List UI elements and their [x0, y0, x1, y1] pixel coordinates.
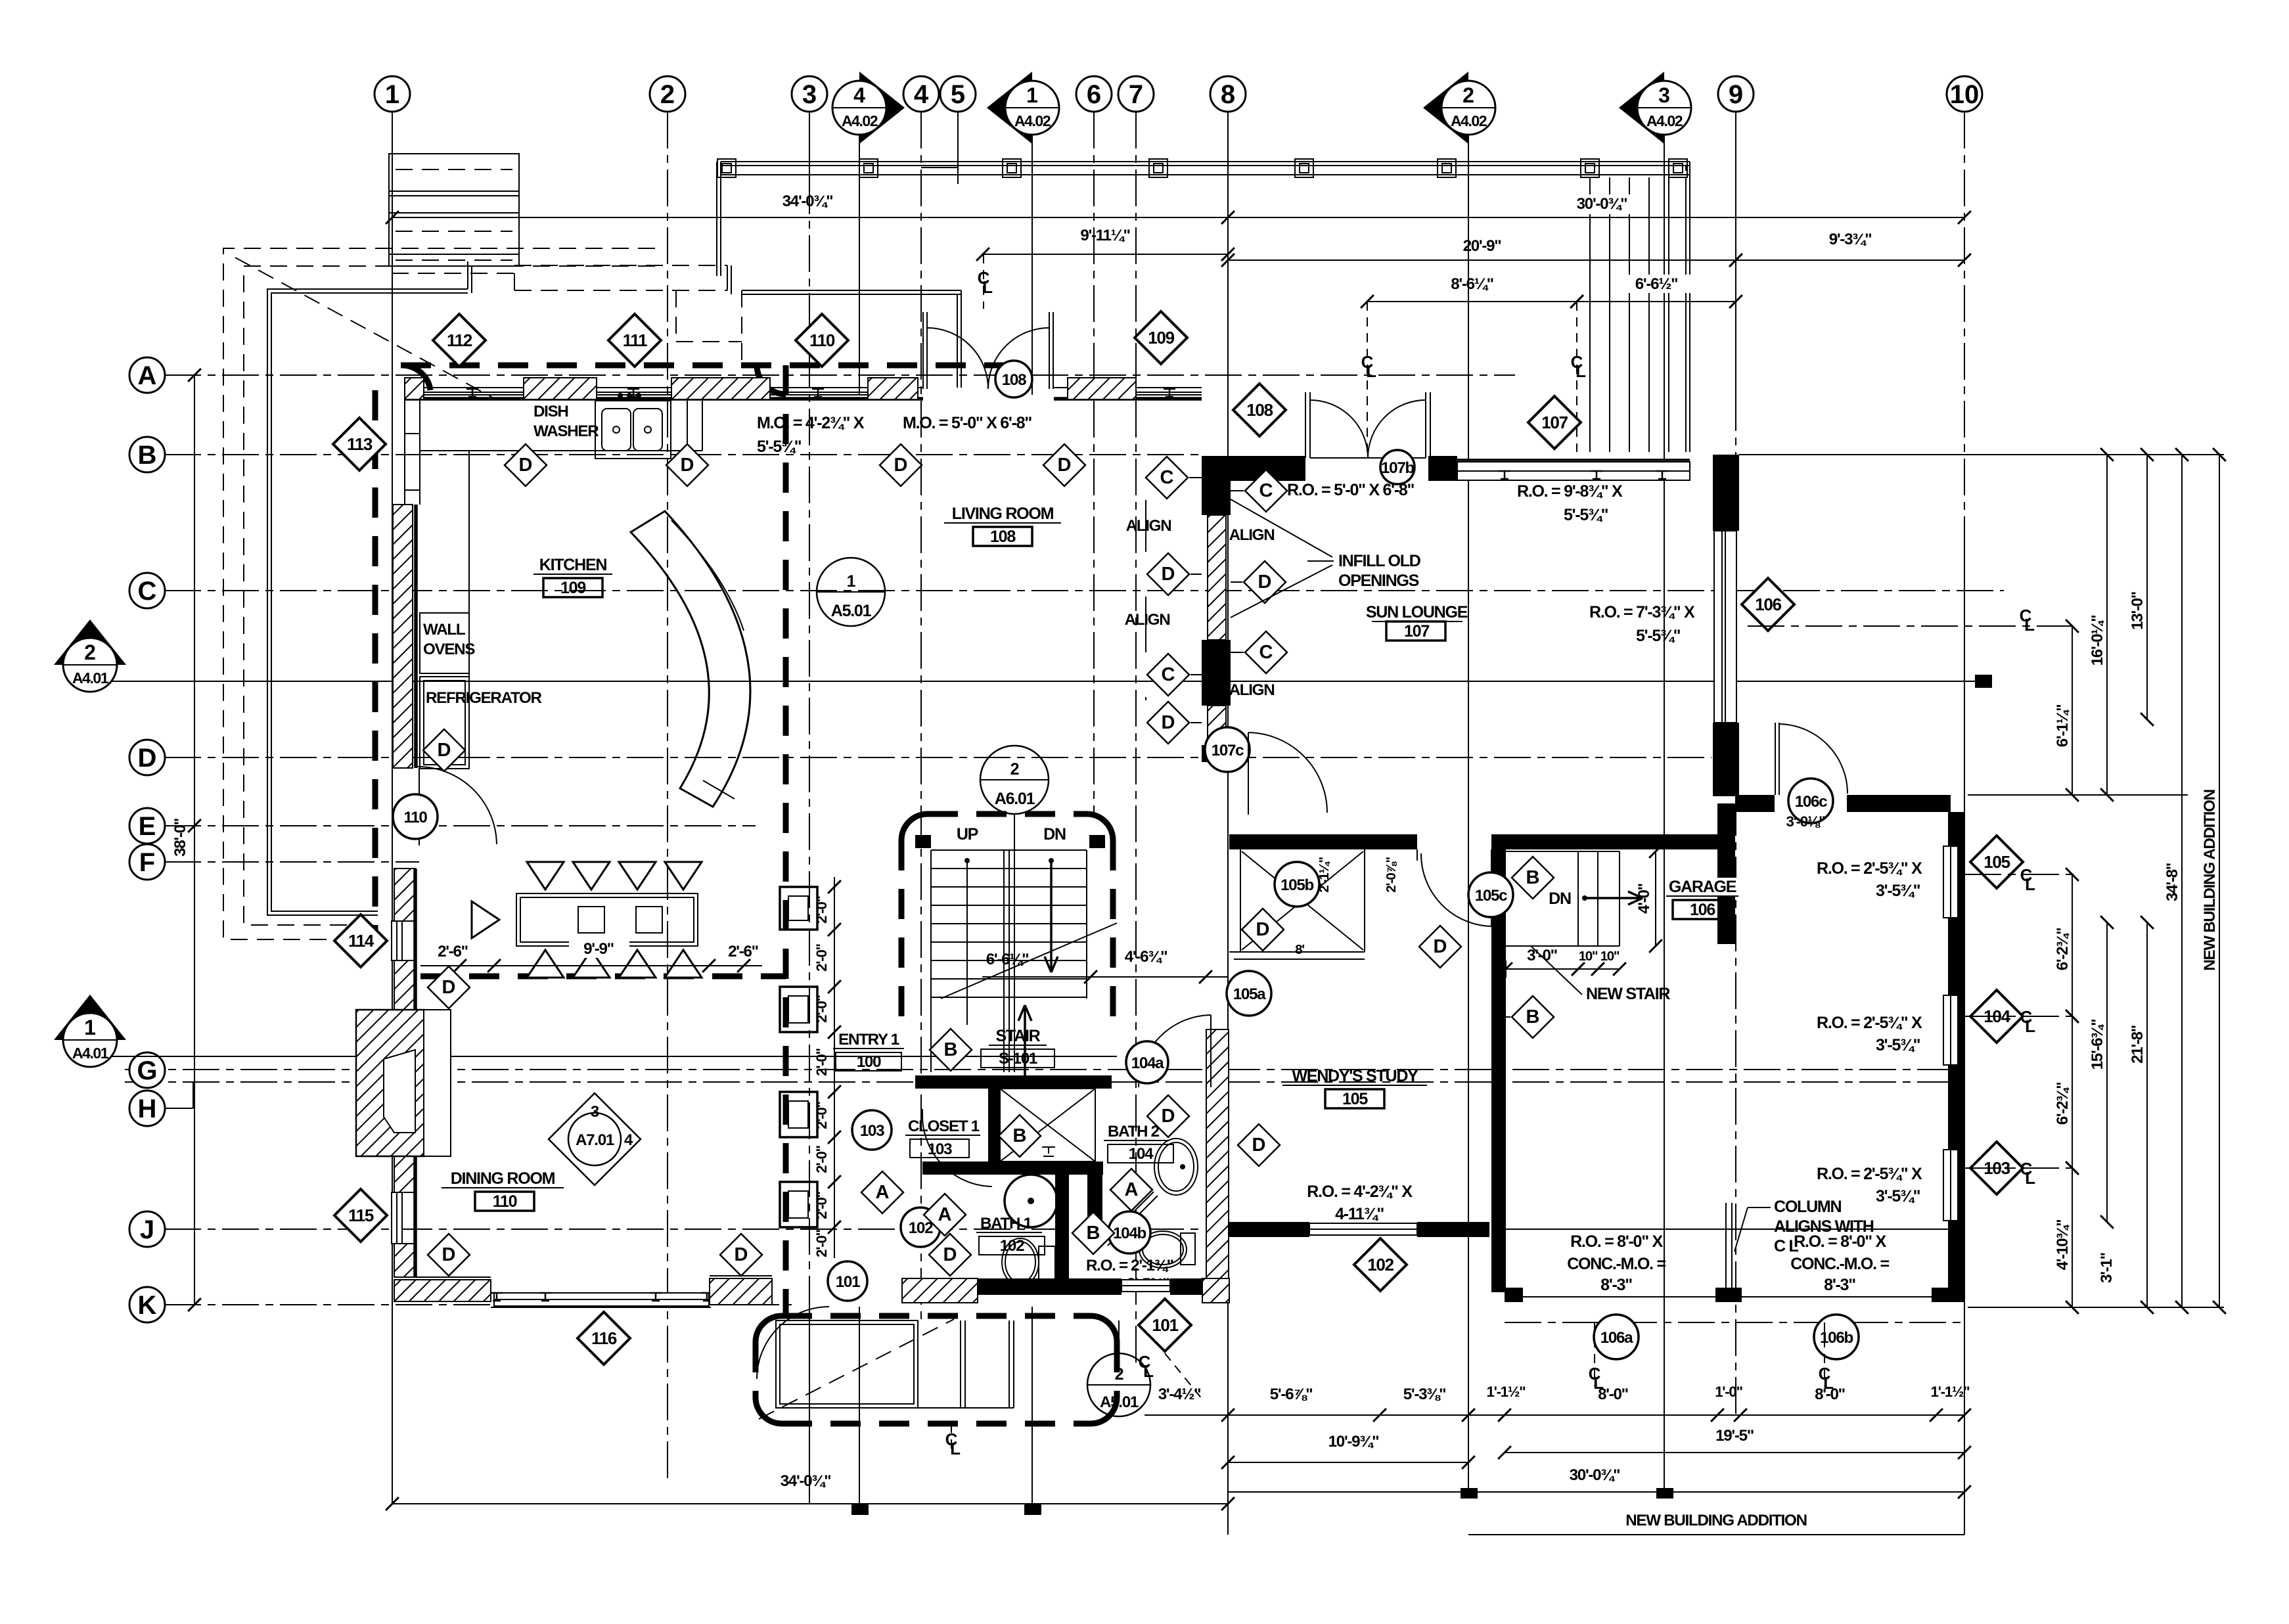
- svg-text:6'-2¾": 6'-2¾": [2054, 928, 2072, 971]
- bath divider: [1087, 1162, 1102, 1240]
- svg-text:A6.01: A6.01: [995, 790, 1035, 808]
- svg-text:2: 2: [1462, 83, 1474, 107]
- refrigerator: [420, 677, 469, 769]
- closet divider: [988, 1089, 1000, 1162]
- top dimension 34ft: [392, 217, 1228, 218]
- svg-text:4-11¾": 4-11¾": [1335, 1205, 1384, 1223]
- svg-text:WENDY'S STUDY: WENDY'S STUDY: [1292, 1067, 1418, 1085]
- svg-text:106c: 106c: [1795, 793, 1827, 811]
- svg-text:R.O. = 2'-5¾" X: R.O. = 2'-5¾" X: [1817, 1165, 1922, 1183]
- svg-text:A7.01: A7.01: [576, 1131, 614, 1149]
- dim 9-3: [1736, 259, 1964, 261]
- svg-text:S-101: S-101: [999, 1050, 1037, 1068]
- svg-text:D: D: [1162, 712, 1175, 733]
- closet dim chain: [834, 877, 835, 1258]
- svg-text:BATH 1: BATH 1: [980, 1215, 1032, 1232]
- core north wall: [915, 1075, 1112, 1089]
- entry closet cabinets: [780, 887, 817, 930]
- garage north wall west part: [1491, 834, 1734, 849]
- door 102 arc: [922, 1117, 992, 1186]
- svg-text:114: 114: [348, 931, 374, 951]
- svg-text:ALIGN: ALIGN: [1126, 517, 1171, 535]
- shower: [1000, 1089, 1095, 1162]
- new top porch beam: [721, 161, 1690, 162]
- section line 2/A4.01: [72, 681, 1983, 682]
- svg-text:103: 103: [860, 1122, 884, 1140]
- svg-text:A4.02: A4.02: [1646, 112, 1683, 129]
- svg-text:5'-5¾": 5'-5¾": [1636, 627, 1681, 645]
- porch diagonal: [759, 1319, 954, 1419]
- detail marker 3/A7.01/4: [549, 1093, 641, 1185]
- detail circle 1/A5.01: [817, 558, 885, 626]
- svg-text:9'-9": 9'-9": [583, 940, 614, 958]
- garage label: [1665, 878, 1740, 896]
- wall ovens: [420, 613, 469, 673]
- svg-text:105c: 105c: [1475, 887, 1507, 905]
- fireplace hearth: [424, 1010, 451, 1156]
- svg-text:A4.01: A4.01: [72, 1045, 109, 1062]
- svg-text:OPENINGS: OPENINGS: [1338, 572, 1419, 590]
- hatched piers north wall: [405, 378, 424, 399]
- svg-text:102: 102: [909, 1219, 933, 1237]
- svg-text:3'-0⅛": 3'-0⅛": [1786, 813, 1826, 830]
- french door 108: [922, 312, 924, 389]
- svg-text:1: 1: [847, 572, 856, 591]
- svg-text:102: 102: [1367, 1255, 1394, 1274]
- svg-text:30'-0¾": 30'-0¾": [1570, 1466, 1620, 1484]
- curved counter: [631, 511, 750, 807]
- svg-text:109: 109: [1148, 328, 1174, 348]
- svg-text:1: 1: [385, 80, 399, 109]
- svg-text:ALIGNS WITH: ALIGNS WITH: [1774, 1217, 1874, 1236]
- svg-text:L: L: [2025, 1168, 2035, 1188]
- stair treads: [930, 850, 932, 1072]
- svg-text:D: D: [1258, 572, 1272, 593]
- svg-text:108: 108: [990, 528, 1016, 546]
- svg-text:104b: 104b: [1113, 1225, 1146, 1242]
- island chairs: [527, 862, 564, 890]
- svg-text:6'-2¾": 6'-2¾": [2054, 1083, 2072, 1125]
- svg-text:A4.01: A4.01: [72, 669, 109, 687]
- svg-text:13'-0": 13'-0": [2129, 592, 2146, 630]
- svg-text:3'-1": 3'-1": [2098, 1253, 2116, 1283]
- svg-text:R.O. = 2'-5¾" X: R.O. = 2'-5¾" X: [1817, 859, 1922, 878]
- svg-text:A4.02: A4.02: [1451, 112, 1487, 129]
- svg-text:NEW BUILDING ADDITION: NEW BUILDING ADDITION: [2201, 790, 2219, 970]
- svg-text:112: 112: [447, 330, 472, 350]
- svg-text:105: 105: [1342, 1090, 1368, 1108]
- bath2 tub: [1154, 1139, 1198, 1195]
- door 107c: [1205, 727, 1250, 772]
- column grid bubbles: [374, 76, 410, 112]
- svg-text:107b: 107b: [1381, 459, 1414, 477]
- CL marks bottom: [1589, 1364, 1604, 1393]
- dim 19-5: [1505, 1452, 1964, 1453]
- bath2 toilet: [1139, 1231, 1187, 1268]
- svg-text:DINING ROOM: DINING ROOM: [451, 1169, 555, 1188]
- svg-text:5'-5¾": 5'-5¾": [757, 438, 802, 456]
- svg-text:107c: 107c: [1212, 742, 1244, 759]
- garage east wall: [1948, 812, 1964, 1301]
- door 105a: [1227, 971, 1271, 1016]
- svg-text:D: D: [442, 977, 456, 998]
- door 104b diagonal: [1104, 1192, 1154, 1242]
- svg-text:2'-6": 2'-6": [728, 943, 758, 960]
- svg-text:G: G: [137, 1056, 157, 1085]
- svg-text:CLOSET 1: CLOSET 1: [908, 1117, 980, 1135]
- svg-text:NEW BUILDING ADDITION: NEW BUILDING ADDITION: [1625, 1512, 1806, 1529]
- svg-text:10": 10": [1579, 949, 1598, 964]
- svg-text:C L: C L: [1774, 1237, 1798, 1255]
- svg-text:KITCHEN: KITCHEN: [539, 556, 607, 574]
- svg-text:STAIR: STAIR: [996, 1027, 1041, 1045]
- svg-text:D: D: [442, 1244, 456, 1265]
- section marker 3/A4.02: [1619, 72, 1664, 144]
- svg-text:2: 2: [1115, 1365, 1123, 1384]
- svg-text:R.O. = 2'-5¾" X: R.O. = 2'-5¾" X: [1817, 1014, 1922, 1032]
- tags bath core: [861, 1171, 903, 1213]
- svg-text:D: D: [943, 1244, 957, 1265]
- svg-text:107: 107: [1404, 622, 1429, 641]
- svg-text:3: 3: [1658, 83, 1670, 107]
- svg-text:L: L: [2024, 615, 2035, 635]
- svg-text:2'-0": 2'-0": [813, 1145, 830, 1173]
- dim 10-9: [1228, 1462, 1468, 1463]
- kitchen sink: [595, 401, 671, 459]
- svg-text:19'-5": 19'-5": [1715, 1427, 1754, 1445]
- bottom dims row: [1228, 1414, 1964, 1416]
- svg-text:K: K: [138, 1291, 157, 1320]
- svg-text:8'-3": 8'-3": [1824, 1276, 1855, 1294]
- svg-text:105b: 105b: [1280, 876, 1313, 894]
- svg-text:C: C: [1162, 664, 1175, 685]
- svg-text:GARAGE: GARAGE: [1669, 878, 1736, 896]
- svg-text:L: L: [2025, 1016, 2035, 1036]
- svg-text:NEW STAIR: NEW STAIR: [1586, 985, 1670, 1003]
- svg-text:34'-0¾": 34'-0¾": [782, 192, 833, 210]
- svg-text:116: 116: [591, 1328, 617, 1348]
- svg-text:106: 106: [1690, 901, 1715, 919]
- svg-text:WASHER: WASHER: [533, 422, 599, 440]
- svg-text:C: C: [1160, 467, 1174, 488]
- svg-text:5'-6⅞": 5'-6⅞": [1270, 1386, 1313, 1403]
- svg-text:110: 110: [809, 330, 835, 350]
- svg-text:CONC.-M.O. =: CONC.-M.O. =: [1790, 1255, 1889, 1273]
- svg-text:8'-3": 8'-3": [1600, 1276, 1632, 1294]
- svg-text:3'-5¾": 3'-5¾": [1876, 1187, 1920, 1206]
- study west wall hatched: [1206, 1029, 1229, 1299]
- svg-text:3'-4½": 3'-4½": [1158, 1386, 1201, 1403]
- svg-text:D: D: [1252, 1135, 1266, 1156]
- svg-text:110: 110: [403, 809, 427, 826]
- svg-text:3'-5¾": 3'-5¾": [1876, 1036, 1920, 1054]
- svg-text:2'-0": 2'-0": [813, 1048, 830, 1075]
- svg-text:B: B: [944, 1039, 958, 1060]
- top dimension 30ft: [1228, 217, 1964, 218]
- svg-text:A: A: [876, 1182, 890, 1203]
- svg-text:4: 4: [624, 1131, 633, 1149]
- dim 8-6 6-6: [1367, 301, 1577, 302]
- svg-text:A: A: [938, 1204, 952, 1225]
- svg-text:104: 104: [1129, 1145, 1154, 1163]
- study south wall: [1229, 1222, 1309, 1237]
- svg-text:6'-6½": 6'-6½": [1635, 275, 1678, 293]
- french door 107b: [1305, 392, 1306, 458]
- door 105c: [1416, 849, 1418, 861]
- garage south wall: [1505, 1288, 1523, 1302]
- entry steps top: [389, 154, 519, 266]
- svg-text:7: 7: [1129, 80, 1143, 109]
- svg-text:2: 2: [84, 641, 96, 664]
- svg-text:OVENS: OVENS: [423, 641, 475, 658]
- svg-text:101: 101: [836, 1273, 860, 1291]
- svg-text:5: 5: [951, 80, 965, 109]
- svg-text:INFILL OLD: INFILL OLD: [1338, 552, 1421, 570]
- bottom dim line 30ft: [1228, 1491, 1964, 1493]
- svg-text:A: A: [1125, 1179, 1139, 1200]
- svg-text:M.O. = 4'-2¾" X: M.O. = 4'-2¾" X: [757, 414, 865, 432]
- door 110: [419, 768, 420, 846]
- section lines A4.02: [859, 135, 860, 395]
- detail circle 2/A5.01: [1087, 1353, 1150, 1416]
- svg-text:F: F: [139, 848, 155, 877]
- svg-text:4'-6¾": 4'-6¾": [1125, 948, 1167, 966]
- svg-text:108: 108: [1246, 400, 1273, 420]
- svg-text:101: 101: [1152, 1315, 1178, 1335]
- svg-text:105a: 105a: [1233, 985, 1266, 1003]
- svg-text:34'-8": 34'-8": [2164, 863, 2181, 901]
- wall segment east: [1735, 795, 1775, 812]
- svg-text:30'-0¾": 30'-0¾": [1577, 195, 1627, 213]
- svg-text:J: J: [140, 1215, 154, 1244]
- kitchen west wall hatched: [393, 505, 413, 768]
- svg-text:UP: UP: [957, 825, 978, 844]
- dining bay windows: [491, 1292, 711, 1294]
- svg-text:D: D: [1058, 455, 1072, 476]
- door 106c: [1775, 723, 1776, 795]
- svg-text:38'-0": 38'-0": [171, 819, 189, 857]
- svg-text:B: B: [138, 441, 157, 470]
- svg-text:3'-5¾": 3'-5¾": [1876, 882, 1920, 900]
- roof outline over kitchen: [392, 273, 514, 274]
- svg-text:CONC.-M.O. =: CONC.-M.O. =: [1567, 1255, 1666, 1273]
- study north wall: [1229, 834, 1417, 849]
- bottom dim line 34ft: [392, 1503, 1228, 1504]
- svg-text:8': 8': [1295, 942, 1304, 957]
- column grid lines: [392, 112, 393, 1504]
- svg-text:D: D: [1434, 936, 1447, 957]
- section marker 4/A4.02: [859, 72, 905, 144]
- svg-text:R.O. = 8'-0" X: R.O. = 8'-0" X: [1570, 1232, 1663, 1251]
- svg-text:L: L: [1143, 1361, 1154, 1381]
- svg-text:C: C: [1259, 642, 1273, 663]
- svg-text:4'-10¾": 4'-10¾": [2054, 1220, 2072, 1271]
- svg-text:9'-3¾": 9'-3¾": [1829, 231, 1872, 248]
- svg-text:111: 111: [623, 330, 647, 350]
- svg-text:110: 110: [493, 1192, 517, 1211]
- svg-text:L: L: [2025, 874, 2035, 894]
- section line 1/A4.01: [72, 1056, 1117, 1057]
- svg-text:1'-0": 1'-0": [1715, 1384, 1742, 1400]
- svg-text:6'-1¼": 6'-1¼": [2054, 705, 2072, 748]
- svg-text:B: B: [1526, 867, 1540, 888]
- window tags top: [433, 314, 486, 367]
- living room north wall: [1054, 387, 1202, 388]
- svg-text:A5.01: A5.01: [1100, 1393, 1139, 1411]
- svg-text:DN: DN: [1549, 890, 1571, 908]
- svg-text:105: 105: [1983, 852, 2010, 872]
- svg-text:2'-1¼": 2'-1¼": [1317, 857, 1332, 893]
- svg-text:R.O. = 4'-2¾" X: R.O. = 4'-2¾" X: [1307, 1183, 1413, 1201]
- svg-text:2'-0⅞": 2'-0⅞": [1384, 857, 1399, 893]
- svg-text:D: D: [438, 740, 451, 761]
- sun lounge east wall: [1713, 455, 1739, 531]
- row grid bubbles: [129, 357, 165, 393]
- elbow col 5: [957, 112, 959, 168]
- D tags kitchen north: [505, 444, 547, 486]
- svg-text:107: 107: [1541, 413, 1568, 432]
- svg-text:D: D: [681, 455, 694, 476]
- kitchen west wall upper window bay: [404, 399, 405, 505]
- svg-text:34'-0¾": 34'-0¾": [781, 1472, 831, 1490]
- svg-text:BATH 2: BATH 2: [1108, 1123, 1160, 1140]
- svg-text:106: 106: [1755, 595, 1781, 614]
- svg-text:R.O. = 7'-3¾" X: R.O. = 7'-3¾" X: [1589, 603, 1695, 621]
- svg-text:R.O. = 5'-0" X 6'-8": R.O. = 5'-0" X 6'-8": [1287, 481, 1415, 499]
- demolition boundary heavy dashed: [373, 390, 378, 946]
- svg-text:ALIGN: ALIGN: [1125, 611, 1170, 629]
- svg-text:2'-0": 2'-0": [813, 943, 830, 971]
- dims under island: [420, 965, 762, 966]
- svg-text:3: 3: [591, 1103, 599, 1121]
- svg-text:A: A: [138, 361, 157, 390]
- dim 9-11: [983, 254, 1228, 255]
- svg-text:R.O. = 9'-8¾" X: R.O. = 9'-8¾" X: [1517, 482, 1623, 501]
- window tags right: [1970, 836, 2023, 888]
- svg-text:B: B: [1526, 1006, 1540, 1027]
- svg-text:D: D: [1162, 564, 1175, 585]
- svg-text:4: 4: [914, 80, 929, 109]
- svg-text:C: C: [138, 577, 157, 606]
- svg-text:M.O. = 5'-0" X 6'-8": M.O. = 5'-0" X 6'-8": [903, 414, 1031, 432]
- counter top edge: [420, 450, 702, 451]
- svg-text:D: D: [1256, 919, 1270, 940]
- svg-text:2'-0": 2'-0": [813, 1191, 830, 1219]
- C row extension right: [1748, 625, 2076, 627]
- svg-text:10: 10: [1950, 80, 1980, 109]
- svg-text:8'-6¼": 8'-6¼": [1451, 275, 1493, 293]
- svg-text:ALIGN: ALIGN: [1229, 526, 1275, 544]
- section marker 2/A4.02: [1423, 72, 1468, 144]
- svg-text:9'-11¼": 9'-11¼": [1080, 227, 1129, 244]
- core mid wall: [922, 1162, 1103, 1175]
- new building addition bottom: [1468, 1534, 1964, 1535]
- svg-text:2'-0": 2'-0": [813, 895, 830, 923]
- svg-text:SUN LOUNGE: SUN LOUNGE: [1366, 603, 1468, 621]
- dim 20-9: [1228, 259, 1736, 261]
- new stair: [1506, 851, 1620, 852]
- svg-text:115: 115: [348, 1206, 374, 1225]
- svg-text:1'-1½": 1'-1½": [1487, 1384, 1526, 1400]
- B tags: [1512, 857, 1554, 899]
- svg-text:D: D: [138, 744, 157, 773]
- svg-text:ENTRY 1: ENTRY 1: [838, 1031, 899, 1049]
- svg-text:6'-6¼": 6'-6¼": [986, 951, 1029, 968]
- porch posts: [717, 159, 736, 177]
- garage door tags: [1594, 1315, 1639, 1359]
- front door 101: [757, 1307, 829, 1379]
- sun lounge west wall: [1202, 456, 1231, 515]
- section marker 1/A4.02: [987, 72, 1032, 144]
- svg-text:5'-5¾": 5'-5¾": [1564, 506, 1608, 524]
- svg-text:2'-0": 2'-0": [813, 995, 830, 1022]
- svg-text:1: 1: [84, 1016, 96, 1039]
- svg-text:2'-0": 2'-0": [813, 1229, 830, 1257]
- svg-text:4'-0": 4'-0": [1635, 884, 1653, 914]
- svg-text:104a: 104a: [1131, 1054, 1164, 1072]
- svg-text:2'-6": 2'-6": [438, 943, 468, 960]
- svg-text:9: 9: [1729, 80, 1743, 109]
- corner post NE: [1717, 803, 1735, 944]
- svg-text:H: H: [138, 1094, 157, 1123]
- svg-text:20'-9": 20'-9": [1463, 237, 1501, 255]
- detail circle 2/A6.01: [980, 746, 1049, 814]
- svg-text:D: D: [894, 455, 908, 476]
- porch right bay lines down to sun lounge: [1589, 177, 1591, 452]
- bath1 toilet: [1002, 1238, 1039, 1286]
- svg-text:ALIGN: ALIGN: [1229, 681, 1275, 699]
- svg-text:C: C: [1259, 480, 1273, 501]
- svg-text:21'-8": 21'-8": [2129, 1026, 2146, 1064]
- svg-text:109: 109: [560, 579, 586, 597]
- right lower dims: [2072, 874, 2073, 1016]
- svg-text:E: E: [139, 812, 156, 841]
- svg-text:8: 8: [1221, 80, 1235, 109]
- stair heavy dashed enclosure: [928, 811, 1087, 817]
- svg-text:COLUMN: COLUMN: [1774, 1198, 1841, 1216]
- garage west wall: [1491, 849, 1506, 1292]
- svg-text:10'-9¾": 10'-9¾": [1328, 1433, 1379, 1451]
- svg-text:B: B: [1087, 1223, 1100, 1244]
- svg-text:LIVING ROOM: LIVING ROOM: [952, 505, 1054, 523]
- leader lines infill: [1231, 499, 1332, 557]
- porch heavy dashed: [782, 1313, 1091, 1319]
- svg-text:3'-0": 3'-0": [1527, 947, 1557, 964]
- chimney bay: [356, 1010, 424, 1156]
- svg-text:D: D: [1162, 1106, 1175, 1127]
- svg-text:15'-6¾": 15'-6¾": [2089, 1020, 2106, 1070]
- south wall west of door: [710, 1278, 772, 1305]
- window tag 101: [1139, 1299, 1191, 1351]
- svg-text:2'-0": 2'-0": [813, 1101, 830, 1129]
- svg-text:100: 100: [857, 1053, 881, 1071]
- svg-text:A4.02: A4.02: [1014, 112, 1051, 129]
- svg-text:5'-3⅜": 5'-3⅜": [1403, 1386, 1446, 1403]
- svg-text:108: 108: [1002, 371, 1026, 389]
- svg-text:DISH: DISH: [533, 403, 568, 420]
- dining west wall: [394, 868, 415, 921]
- svg-text:REFRIGERATOR: REFRIGERATOR: [426, 689, 541, 707]
- svg-text:WALL: WALL: [423, 621, 466, 639]
- bath1 sink: [1005, 1175, 1057, 1227]
- bath1 east wall: [1055, 1175, 1069, 1282]
- roof valley diagonal: [235, 258, 496, 399]
- row grid lines: [164, 374, 1515, 376]
- svg-text:106a: 106a: [1600, 1329, 1633, 1347]
- svg-text:2: 2: [660, 80, 675, 109]
- existing porch outline top-left: [223, 248, 655, 939]
- powder room 105b: [1240, 849, 1241, 952]
